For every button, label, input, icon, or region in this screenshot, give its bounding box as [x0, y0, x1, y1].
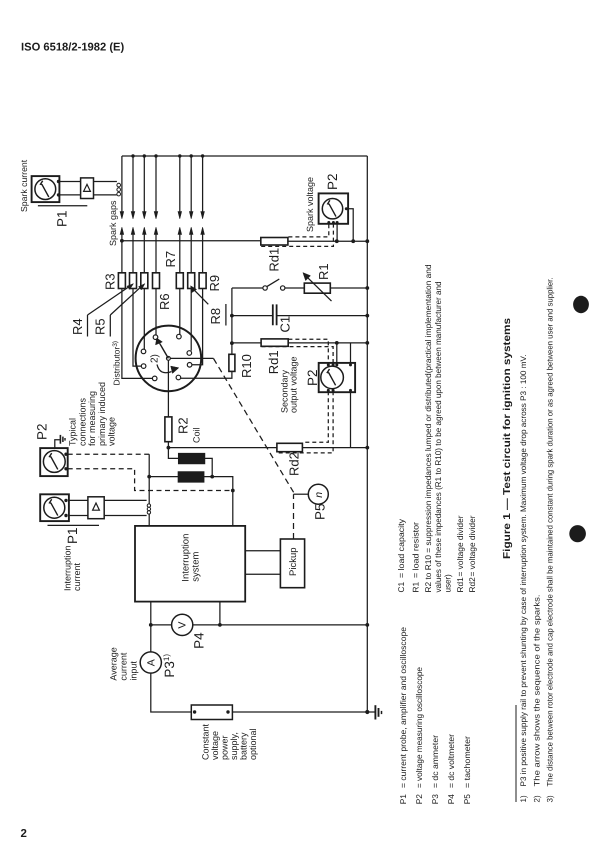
node R10/Rd1 junction	[230, 341, 234, 345]
wire R4 to terminal 2	[133, 289, 141, 367]
svg-text:P3: P3	[430, 794, 440, 805]
cap terminal 7 (lower-right)	[187, 363, 192, 368]
node R2 bottom / coil tap	[167, 446, 171, 450]
svg-text:P4: P4	[446, 794, 456, 805]
wire interruption box to supply rail (right)	[219, 602, 221, 625]
capacitor C1	[273, 304, 277, 325]
node coil primary left	[147, 475, 151, 479]
dashed link pickup to distributor	[293, 494, 295, 539]
wire: gap 6 to R8	[190, 241, 192, 273]
svg-text:Rd1: Rd1	[267, 248, 282, 272]
svg-text:= voltage divider: = voltage divider	[467, 515, 477, 576]
svg-text:C1: C1	[278, 316, 293, 333]
cap terminal 6 (upper-right)	[187, 351, 192, 356]
svg-text:= tachometer: = tachometer	[462, 736, 472, 788]
node secondary/right bus	[365, 341, 369, 345]
cap terminal 4 (top-left)	[153, 335, 158, 340]
wire rail to P3	[150, 625, 152, 652]
spark gap 7	[201, 154, 205, 241]
svg-text:R9: R9	[207, 275, 222, 292]
wire R6 to terminal 4	[155, 289, 157, 335]
svg-text:C1: C1	[396, 582, 406, 593]
spark gap 6	[189, 154, 193, 241]
R4 leader arrow	[88, 286, 131, 315]
svg-text:The arrow shows the sequence o: The arrow shows the sequence of the spar…	[533, 595, 542, 787]
node HT/right bus	[365, 239, 369, 243]
svg-text:2): 2)	[150, 354, 161, 363]
wire P2 secondary to line	[336, 343, 338, 364]
wire coil secondary to primary	[204, 458, 212, 476]
dashed tap P2sec down to Rd2 right	[304, 391, 328, 442]
meter P1 (spark current)	[32, 176, 61, 202]
dashed link distributor to pickup/P5 node	[214, 359, 295, 495]
dashed probe lead P2 primary (hot)	[68, 453, 150, 455]
wire interruption to pickup (pair)	[245, 551, 280, 575]
svg-text:R7: R7	[163, 251, 178, 268]
svg-text:output voltage: output voltage	[289, 356, 299, 413]
wire: top spark bus	[122, 155, 367, 157]
node ground junction	[365, 710, 369, 714]
svg-text:Distributor3): Distributor3)	[112, 341, 122, 386]
cap terminal 3 (upper-left)	[141, 349, 146, 354]
wire R1 to right bus	[330, 287, 367, 289]
ground (earth)	[367, 705, 381, 719]
wire R9 to terminal 7	[192, 289, 203, 365]
resistor R2	[165, 417, 172, 442]
dashed probe lead P2 primary (return)	[68, 469, 233, 491]
node HT/P2 case tap	[351, 239, 355, 243]
svg-text:P31): P31)	[162, 654, 177, 678]
svg-text:connections: connections	[77, 397, 87, 446]
R5 underline	[109, 315, 111, 337]
svg-text:current: current	[119, 652, 129, 681]
wire supply rail through P4	[151, 624, 367, 626]
dashed tap Rd1 right to P2	[288, 225, 328, 237]
spark gap 2	[131, 154, 135, 241]
svg-text:R10: R10	[239, 354, 254, 378]
meter P4 (dc voltmeter)	[172, 614, 193, 635]
dashed tap P2sec down to Rd2 left	[278, 391, 334, 453]
wire terminal 8 to R10	[181, 371, 232, 378]
resistor Rd1 (upper divider)	[261, 238, 288, 246]
wire P1 to amplifier (pair)	[59, 182, 80, 195]
svg-text:R1: R1	[316, 263, 331, 280]
svg-text:R2: R2	[176, 417, 191, 434]
wire coil to interruption system (+)	[212, 477, 233, 526]
binding hole upper	[573, 296, 589, 313]
svg-text:Rd2: Rd2	[467, 577, 477, 593]
resistor R5	[141, 273, 148, 289]
cap terminal 2 (lower-left)	[141, 364, 146, 369]
node coil primary right	[210, 475, 214, 479]
resistor R8	[188, 273, 195, 289]
rotor centre electrode	[167, 357, 171, 361]
svg-text:P1: P1	[398, 794, 408, 805]
svg-text:P2: P2	[325, 173, 340, 190]
wire Rd2 left to coil node	[168, 447, 277, 449]
resistor R1 (adjustable load)	[304, 283, 330, 293]
node C1/right bus	[365, 314, 369, 318]
svg-text:A: A	[145, 659, 157, 666]
svg-text:Coil: Coil	[192, 427, 202, 443]
breaker points switch	[263, 279, 285, 290]
cap terminal 5 (top-right)	[177, 334, 182, 339]
meter P2 (primary induced voltage)	[40, 448, 68, 476]
svg-text:Typical: Typical	[68, 418, 78, 446]
wire P2sec case down to Rd2 line	[350, 391, 352, 447]
spark gap 4	[154, 154, 158, 241]
amplifier (current probe amp)	[81, 178, 94, 199]
spark gap 3	[143, 154, 147, 241]
resistor Rd2	[277, 443, 303, 451]
interruption system box	[135, 526, 245, 602]
wire: gap 7 to R9	[202, 241, 204, 273]
footnote rule	[515, 705, 517, 802]
wire R3 to terminal 1	[122, 289, 152, 379]
resistor R3	[118, 273, 125, 289]
wire R8 to terminal 6	[190, 289, 192, 351]
meter P2 (secondary output voltage)	[319, 363, 355, 392]
wire branch to breaker	[232, 287, 263, 289]
svg-text:P5: P5	[313, 503, 328, 520]
wire P1i to amplifier	[69, 500, 88, 515]
wire: gap 5 to R7	[179, 241, 181, 273]
svg-text:1): 1)	[519, 795, 528, 802]
svg-text:values of these impedances (R1: values of these impedances (R1 to R10) t…	[433, 281, 443, 592]
svg-text:supply,: supply,	[229, 732, 239, 760]
coil primary winding	[178, 472, 204, 482]
node R1/right bus	[365, 286, 369, 290]
resistor R6	[153, 273, 160, 289]
svg-text:= dc voltmeter: = dc voltmeter	[446, 734, 456, 788]
svg-text:P2: P2	[414, 794, 424, 805]
wire breaker to R1	[285, 287, 304, 289]
wire Rd2 right to bus	[302, 447, 367, 449]
P1 underline	[38, 205, 87, 207]
clamp rings (interruption lead)	[147, 504, 150, 514]
svg-text:user): user)	[443, 574, 453, 593]
svg-text:Figure 1 — Test circuit for ig: Figure 1 — Test circuit for ignition sys…	[502, 317, 513, 559]
pickup box	[280, 539, 304, 588]
svg-text:system: system	[191, 552, 202, 582]
svg-text:P4: P4	[192, 632, 207, 649]
svg-text:R2 to R10 = suppression impeda: R2 to R10 = suppression impedances lumpe…	[423, 264, 433, 592]
svg-text:P1: P1	[65, 527, 80, 544]
svg-text:P5: P5	[462, 794, 472, 805]
wire: right bus	[366, 156, 368, 712]
resistor Rd1 (secondary divider)	[261, 339, 288, 346]
svg-text:R8: R8	[208, 308, 223, 325]
svg-text:voltage: voltage	[210, 731, 220, 760]
svg-text:ISO 6518/2-1982 (E): ISO 6518/2-1982 (E)	[21, 42, 125, 54]
node HT/P2 tap	[335, 239, 339, 243]
P1 interruption underline	[48, 524, 100, 526]
svg-text:Interruption: Interruption	[62, 545, 72, 591]
svg-text:R3: R3	[103, 273, 118, 290]
svg-text:R1: R1	[410, 582, 420, 593]
node supply rail left	[149, 623, 153, 627]
svg-text:V: V	[177, 622, 189, 629]
wire coil primary left	[149, 476, 178, 478]
wire amplifier to clamp	[94, 182, 117, 195]
svg-text:voltage: voltage	[107, 417, 117, 446]
wire measuring bus down to interruption system	[148, 454, 150, 526]
node R10/C1 junction	[230, 314, 234, 318]
svg-text:Average: Average	[109, 647, 119, 680]
svg-text:Constant: Constant	[201, 723, 211, 760]
spark gap 5	[178, 154, 182, 241]
binding hole lower	[569, 525, 586, 542]
svg-text:input: input	[128, 661, 138, 681]
svg-text:P2: P2	[35, 423, 50, 440]
wire: gap 3 to R5	[143, 241, 145, 273]
node Rd2/right bus	[365, 446, 369, 450]
wire secondary line left	[232, 342, 261, 344]
wire: gap 1 to R3	[121, 241, 123, 273]
svg-text:optional: optional	[248, 728, 258, 760]
svg-text:Rd1: Rd1	[455, 577, 465, 593]
svg-text:P2: P2	[305, 369, 320, 386]
battery / power supply	[191, 705, 232, 720]
node pickup dashed tee	[231, 489, 235, 493]
svg-text:power: power	[220, 735, 230, 760]
node supply rail/right bus	[365, 623, 369, 627]
svg-text:Spark current: Spark current	[19, 159, 29, 212]
svg-text:Rd2: Rd2	[287, 452, 302, 476]
meter P3 (dc ammeter)	[140, 652, 161, 673]
R4 underline	[87, 315, 89, 337]
svg-text:= dc ammeter: = dc ammeter	[430, 735, 440, 788]
resistor R10	[229, 354, 235, 371]
wire node to P5	[294, 493, 309, 495]
svg-text:Rd1: Rd1	[266, 350, 281, 374]
ground at P2 primary	[55, 435, 65, 448]
dashed tap Rd1sec right to P2	[288, 339, 328, 364]
wire rotor centre to HT tap	[170, 357, 213, 359]
svg-text:P3 in positive supply rail to: P3 in positive supply rail to prevent sh…	[519, 355, 528, 787]
wire: gap 4 to R6	[155, 241, 157, 273]
cap terminal 1 (bottom-left)	[152, 376, 157, 381]
meter P1 (interruption current)	[40, 494, 69, 521]
svg-text:2): 2)	[533, 795, 542, 802]
wire C1 right to bus	[277, 315, 368, 317]
node supply rail right	[218, 623, 222, 627]
wire P3 to battery	[151, 673, 192, 712]
coil secondary winding	[179, 454, 205, 464]
dashed tap Rd1 left to P2	[261, 225, 333, 247]
svg-text:The distance between rotor ele: The distance between rotor electrode and…	[546, 278, 555, 787]
wire distributor centre to R2	[167, 360, 169, 417]
resistor R4	[130, 273, 137, 289]
amplifier (interruption probe)	[88, 497, 104, 519]
wire C1 left	[232, 315, 273, 317]
svg-text:n: n	[313, 492, 325, 498]
svg-text:Pickup: Pickup	[288, 547, 299, 576]
R8 leader arrow	[193, 289, 208, 305]
resistor R7	[176, 273, 183, 289]
svg-text:R4: R4	[70, 318, 85, 335]
svg-text:Spark voltage: Spark voltage	[305, 177, 315, 232]
rotation direction arc arrow	[157, 365, 172, 373]
wire R10 up to breaker branch	[231, 288, 233, 354]
cap terminal 8 (bottom-right)	[176, 375, 181, 380]
svg-text:= load capacity: = load capacity	[396, 518, 406, 578]
rotor arm arrow	[160, 343, 169, 358]
svg-text:current: current	[72, 562, 82, 591]
wire secondary line right to bus	[288, 342, 367, 344]
meter P2 (spark voltage)	[319, 193, 349, 224]
svg-text:battery: battery	[239, 732, 249, 760]
svg-text:R5: R5	[93, 318, 108, 335]
wire R2 to coil secondary	[168, 442, 178, 459]
svg-text:2: 2	[21, 828, 27, 840]
wire: lower spark bus / HT line	[122, 240, 367, 242]
svg-text:= load resistor: = load resistor	[410, 522, 420, 578]
wire battery to ground node	[232, 711, 367, 713]
node: lower bus left corner	[120, 239, 124, 243]
svg-text:= voltage measuring oscillosc: = voltage measuring oscilloscope	[414, 667, 424, 788]
wire: gap 2 to R4	[132, 241, 134, 273]
svg-text:R6: R6	[157, 293, 172, 310]
wire R7 to terminal 5	[179, 289, 181, 335]
R1 adjustment arrow	[307, 277, 332, 301]
svg-text:primary induced: primary induced	[97, 382, 107, 446]
wire amplifier to clamp (interruption)	[104, 500, 146, 515]
wire P2 secondary case to line	[350, 343, 352, 364]
svg-text:= current probe, amplifier an: = current probe, amplifier and oscillosc…	[398, 627, 408, 788]
clamp rings on spark lead	[117, 183, 121, 196]
svg-text:= voltage divider: = voltage divider	[455, 515, 465, 576]
spark gap 1	[120, 156, 124, 241]
R5 leader arrow	[110, 286, 142, 315]
wire R5 to terminal 3	[143, 289, 145, 350]
svg-text:for measuring: for measuring	[87, 391, 97, 446]
wire P2 spark to HT line	[336, 225, 338, 242]
resistor R9	[199, 273, 206, 289]
R8 underline	[225, 304, 227, 326]
svg-text:Spark gaps: Spark gaps	[108, 200, 118, 246]
wire P2 spark case to HT line	[348, 209, 353, 242]
distributor housing	[136, 326, 202, 392]
wire interruption box to supply rail (left)	[150, 602, 152, 625]
dashed tap Rd1sec left to P2	[262, 347, 334, 364]
meter P5 (tachometer)	[308, 484, 328, 504]
svg-text:P1: P1	[55, 210, 70, 227]
svg-text:3): 3)	[546, 795, 555, 802]
